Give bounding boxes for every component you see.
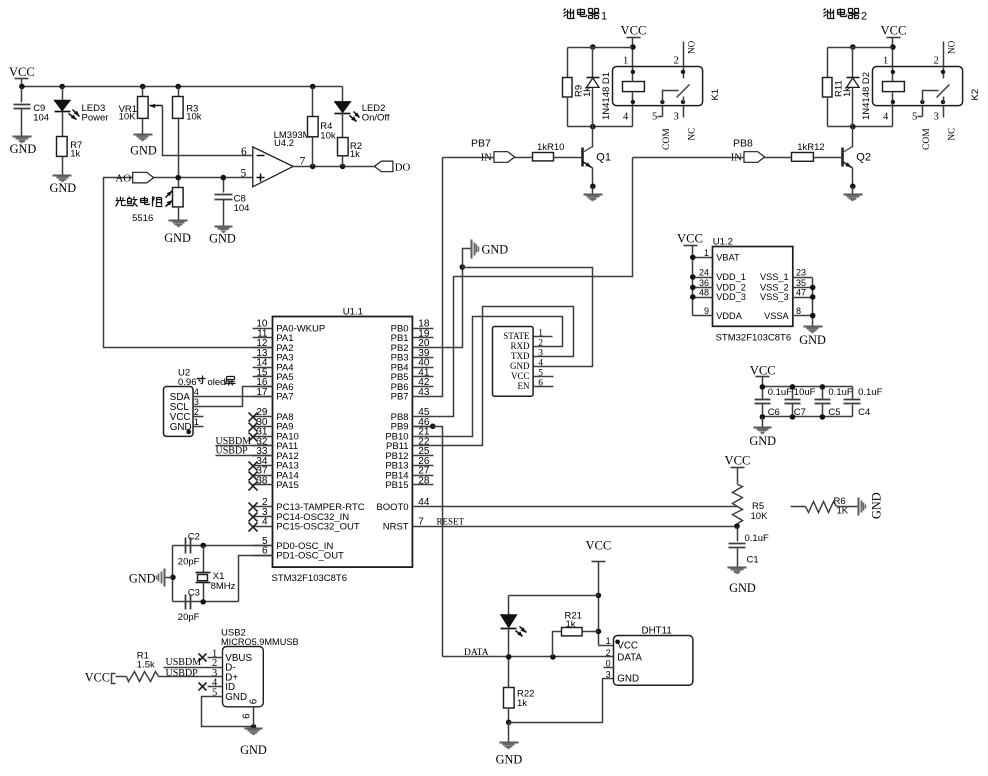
svg-text:3: 3 (674, 111, 679, 122)
svg-text:VBAT: VBAT (716, 253, 740, 263)
svg-text:VCC: VCC (750, 363, 776, 377)
svg-text:1k: 1k (350, 149, 360, 160)
svg-text:Power: Power (82, 113, 109, 124)
svg-text:4: 4 (538, 358, 543, 368)
svg-text:1k: 1k (70, 149, 80, 160)
svg-text:1N4148 D2: 1N4148 D2 (861, 72, 872, 120)
svg-text:VCC: VCC (677, 231, 703, 245)
svg-text:C7: C7 (794, 407, 806, 418)
svg-text:GND: GND (129, 572, 156, 586)
svg-text:0.1uF: 0.1uF (828, 387, 852, 398)
svg-text:VDD_1: VDD_1 (716, 272, 746, 282)
svg-text:36: 36 (699, 278, 709, 288)
svg-text:1k: 1k (566, 619, 576, 630)
svg-text:C2: C2 (188, 531, 200, 542)
svg-text:USBDP: USBDP (216, 446, 249, 457)
svg-text:NO: NO (946, 40, 956, 54)
svg-text:C6: C6 (768, 407, 780, 418)
svg-text:GND: GND (749, 434, 776, 448)
svg-text:8: 8 (796, 306, 801, 316)
svg-text:VSS_3: VSS_3 (760, 292, 789, 302)
svg-text:K2: K2 (970, 89, 981, 101)
svg-text:9: 9 (704, 306, 709, 316)
svg-text:GND: GND (482, 243, 509, 257)
svg-text:VDD_2: VDD_2 (716, 283, 746, 293)
svg-text:3: 3 (934, 111, 939, 122)
svg-text:AO: AO (115, 172, 131, 184)
svg-text:STM32F103C8T6: STM32F103C8T6 (272, 573, 348, 584)
svg-text:EN: EN (518, 381, 530, 391)
svg-text:U1.1: U1.1 (343, 307, 363, 318)
svg-text:2: 2 (538, 338, 543, 348)
svg-text:VCC: VCC (9, 65, 35, 79)
svg-text:38: 38 (256, 475, 268, 486)
svg-text:DATA: DATA (617, 652, 642, 663)
svg-text:2: 2 (674, 56, 679, 67)
svg-text:GND: GND (496, 753, 523, 767)
svg-text:MICRO5.9MMUSB: MICRO5.9MMUSB (221, 637, 299, 647)
svg-text:VCC: VCC (617, 640, 638, 651)
svg-text:1k: 1k (842, 87, 853, 97)
svg-text:3: 3 (606, 669, 611, 679)
svg-text:10uF: 10uF (794, 387, 816, 398)
svg-text:GND: GND (225, 692, 247, 703)
svg-text:PC15-OSC32_OUT: PC15-OSC32_OUT (276, 522, 360, 533)
svg-text:GND: GND (240, 743, 267, 757)
svg-text:4: 4 (194, 387, 199, 397)
svg-text:VSS_1: VSS_1 (760, 272, 789, 282)
svg-text:GND: GND (164, 231, 191, 245)
svg-text:1kR12: 1kR12 (797, 142, 824, 153)
svg-text:VCC: VCC (511, 371, 530, 381)
svg-text:VDD_3: VDD_3 (716, 292, 746, 302)
svg-text:TXD: TXD (511, 351, 530, 361)
svg-text:USBDP: USBDP (166, 668, 199, 679)
svg-text:44: 44 (418, 497, 430, 508)
svg-text:PB7: PB7 (391, 392, 409, 403)
svg-text:PD1-OSC_OUT: PD1-OSC_OUT (276, 551, 344, 562)
svg-text:On/Off: On/Off (362, 113, 390, 124)
svg-text:7: 7 (418, 517, 424, 528)
svg-text:NC: NC (686, 128, 696, 141)
svg-text:GND: GND (799, 333, 826, 347)
svg-text:VCC: VCC (621, 24, 647, 38)
svg-text:8MHz: 8MHz (211, 581, 236, 592)
svg-text:GND: GND (870, 492, 884, 519)
svg-text:0.1uF: 0.1uF (745, 533, 769, 544)
svg-text:oled: oled (208, 377, 226, 388)
svg-text:1: 1 (704, 248, 709, 258)
svg-text:10k: 10k (186, 112, 202, 123)
svg-text:VSSA: VSSA (764, 311, 789, 321)
svg-text:1k: 1k (517, 698, 527, 709)
svg-text:23: 23 (796, 268, 806, 278)
svg-text:3: 3 (194, 397, 199, 407)
svg-text:NO: NO (686, 40, 696, 54)
svg-text:C5: C5 (828, 407, 840, 418)
svg-text:35: 35 (796, 278, 806, 288)
svg-text:RXD: RXD (510, 341, 530, 351)
svg-text:1: 1 (883, 56, 888, 67)
svg-text:COM: COM (662, 128, 672, 150)
svg-text:2: 2 (606, 648, 611, 658)
svg-text:VCC: VCC (85, 671, 110, 685)
svg-text:VSS_2: VSS_2 (760, 283, 789, 293)
svg-text:1: 1 (606, 636, 611, 646)
svg-text:Q2: Q2 (856, 151, 871, 163)
svg-text:GND: GND (617, 674, 639, 685)
svg-text:BOOT0: BOOT0 (376, 502, 408, 513)
svg-text:1.5k: 1.5k (137, 660, 155, 671)
svg-text:3: 3 (538, 348, 543, 358)
svg-text:C3: C3 (188, 587, 200, 598)
svg-text:48: 48 (699, 288, 709, 298)
svg-text:20pF: 20pF (178, 612, 200, 623)
svg-text:RESET: RESET (437, 516, 465, 526)
svg-text:PA7: PA7 (276, 392, 293, 403)
svg-text:C4: C4 (858, 407, 870, 418)
svg-text:0.1uF: 0.1uF (768, 387, 792, 398)
svg-text:STATE: STATE (503, 331, 530, 341)
svg-text:1K: 1K (837, 506, 849, 517)
svg-text:DO: DO (395, 162, 411, 174)
svg-text:C1: C1 (747, 555, 759, 566)
svg-text:6: 6 (241, 714, 252, 719)
svg-text:2: 2 (194, 407, 199, 417)
svg-text:USBDM: USBDM (166, 657, 202, 668)
svg-text:4: 4 (262, 517, 268, 528)
svg-text:4: 4 (883, 111, 889, 122)
svg-text:104: 104 (234, 203, 250, 214)
svg-text:20pF: 20pF (178, 557, 200, 568)
svg-text:5: 5 (240, 167, 246, 179)
svg-text:DHT11: DHT11 (642, 625, 672, 636)
svg-text:1N4148 D1: 1N4148 D1 (601, 72, 612, 120)
svg-text:GND: GND (10, 142, 37, 156)
svg-text:GND: GND (209, 231, 236, 245)
svg-text:DATA: DATA (464, 648, 489, 658)
svg-text:VCC: VCC (881, 24, 907, 38)
svg-text:4: 4 (623, 111, 629, 122)
svg-text:GND: GND (130, 143, 157, 157)
svg-text:STM32F103C8T6: STM32F103C8T6 (716, 333, 792, 344)
svg-text:28: 28 (418, 475, 430, 486)
svg-text:2: 2 (861, 11, 867, 23)
svg-text:1kR10: 1kR10 (537, 142, 564, 153)
svg-text:1: 1 (194, 417, 199, 427)
svg-text:VDDA: VDDA (716, 311, 742, 321)
svg-text:PB8: PB8 (733, 138, 753, 150)
svg-text:NC: NC (946, 128, 956, 141)
svg-text:PB15: PB15 (385, 480, 408, 491)
svg-text:24: 24 (699, 268, 709, 278)
svg-text:U1.2: U1.2 (713, 237, 733, 248)
svg-text:7: 7 (300, 156, 306, 168)
svg-text:6: 6 (241, 146, 247, 158)
svg-text:K1: K1 (710, 89, 721, 101)
svg-text:47: 47 (796, 288, 806, 298)
svg-text:5: 5 (912, 111, 917, 122)
svg-text:0.1uF: 0.1uF (858, 387, 882, 398)
svg-text:GND: GND (729, 581, 756, 595)
svg-text:2: 2 (934, 56, 939, 67)
svg-text:PA15: PA15 (276, 480, 299, 491)
svg-text:COM: COM (922, 128, 932, 150)
svg-text:GND: GND (510, 361, 530, 371)
svg-text:10K: 10K (751, 511, 769, 522)
svg-text:VCC: VCC (585, 539, 611, 553)
svg-text:U4.2: U4.2 (274, 138, 294, 149)
svg-text:5516: 5516 (132, 213, 153, 224)
svg-text:6: 6 (249, 699, 260, 704)
svg-text:VCC: VCC (725, 454, 751, 468)
svg-text:1: 1 (623, 56, 628, 67)
svg-text:PB7: PB7 (471, 138, 491, 150)
svg-text:NRST: NRST (383, 522, 409, 533)
svg-text:1: 1 (601, 11, 607, 23)
svg-text:5: 5 (652, 111, 657, 122)
svg-text:Q1: Q1 (596, 151, 611, 163)
svg-text:10k: 10k (320, 130, 336, 141)
svg-text:10K: 10K (119, 112, 137, 123)
svg-text:43: 43 (418, 387, 430, 398)
svg-text:104: 104 (33, 112, 49, 123)
svg-text:GND: GND (49, 181, 76, 195)
svg-text:1k: 1k (582, 87, 593, 97)
